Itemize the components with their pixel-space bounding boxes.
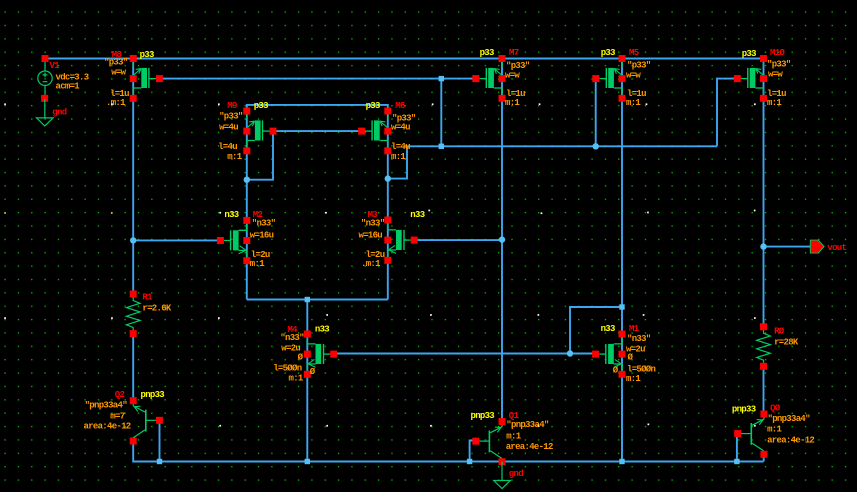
wire Q2 base drop: [159, 422, 161, 462]
svg-text:p33: p33: [480, 48, 494, 58]
transistor M8: [130, 55, 163, 102]
wire M10 gate link: [717, 79, 737, 147]
label M1: [629, 324, 640, 334]
value M5 m: [626, 98, 641, 108]
cellname M8 p33: [140, 50, 154, 60]
svg-text:"p33": "p33": [506, 61, 530, 71]
net M1 bulk 0: [628, 353, 634, 363]
junction Q1 base rail: [467, 459, 472, 464]
svg-text:M7: M7: [509, 48, 519, 58]
label R0: [774, 327, 785, 337]
svg-text:m:1: m:1: [250, 259, 265, 269]
svg-text:vout: vout: [827, 243, 846, 253]
wire M5 M1 column: [621, 59, 623, 462]
value M1 m: [626, 374, 641, 384]
wire M6 M3 column: [387, 111, 389, 300]
svg-text:w=16u: w=16u: [250, 231, 274, 241]
junction pbias corner: [439, 144, 444, 149]
transistor Q2: [130, 397, 163, 444]
value M2 l: [251, 250, 270, 260]
label M2: [253, 210, 263, 220]
svg-text:M9: M9: [227, 101, 237, 111]
transistor Q0: [734, 411, 767, 458]
node vout: [760, 243, 766, 249]
svg-text:R1: R1: [142, 293, 153, 303]
value M7 m: [505, 98, 520, 108]
cellname M1 n33: [601, 324, 615, 334]
wire R0 to Q0 emitter: [763, 367, 765, 415]
net M4 bulk 0: [298, 353, 304, 363]
svg-text:w=4u: w=4u: [219, 123, 238, 133]
svg-text:RØ: RØ: [774, 327, 785, 337]
junction M5 drain: [619, 304, 624, 309]
value M9 w: [219, 123, 238, 133]
svg-text:pnp33: pnp33: [471, 411, 495, 421]
svg-text:pnp33: pnp33: [141, 390, 165, 400]
svg-text:"n33": "n33": [252, 218, 276, 228]
svg-text:w=w: w=w: [111, 68, 126, 78]
svg-text:p33: p33: [366, 101, 380, 111]
svg-text:"n33": "n33": [361, 218, 385, 228]
value Q1 area: [506, 442, 553, 452]
value acm: [56, 82, 81, 92]
transistor M10: [734, 55, 767, 102]
value M10 m: [767, 98, 782, 108]
label M10: [770, 48, 785, 58]
svg-text:w=16u: w=16u: [359, 231, 383, 241]
value M6 w: [391, 123, 410, 133]
svg-text:m:1: m:1: [391, 152, 406, 162]
node M6 drain: [385, 175, 391, 181]
cellname Q0 pnp33: [732, 404, 756, 414]
svg-text:m:1: m:1: [767, 425, 782, 435]
junction Q0 base rail: [734, 459, 739, 464]
svg-text:m:1: m:1: [289, 374, 304, 384]
value M7 l: [506, 89, 525, 99]
model M6: [392, 113, 416, 123]
model M10: [767, 59, 791, 69]
transistor M9: [243, 108, 276, 155]
model M4: [280, 333, 304, 343]
resistor R0: [757, 323, 771, 370]
resistor R1: [126, 291, 140, 338]
model M8: [104, 58, 128, 68]
model M3: [361, 218, 385, 228]
wire M8 drain column to R1: [132, 59, 134, 295]
value Q2 area: [84, 422, 131, 432]
svg-text:p33: p33: [140, 50, 154, 60]
junction M8 M7 gates: [439, 76, 444, 81]
wire Q1 base drop: [470, 441, 476, 462]
label M4: [287, 325, 298, 335]
svg-text:"n33": "n33": [280, 333, 304, 343]
value M3 m: [361, 259, 381, 269]
wire vdd rail: [45, 58, 764, 60]
value M6 l: [391, 142, 410, 152]
svg-text:"p33": "p33": [627, 60, 651, 70]
value M6 m: [391, 152, 406, 162]
wire M5 gate drop: [595, 79, 597, 147]
cellname M9 p33: [254, 101, 268, 111]
label Q2: [115, 390, 125, 400]
svg-text:.m:1: .m:1: [361, 259, 381, 269]
svg-text:m:1: m:1: [227, 152, 242, 162]
model M5: [627, 60, 651, 70]
model M9: [219, 111, 243, 121]
svg-text:area:4e-12: area:4e-12: [84, 422, 131, 432]
value Q2 m: [110, 412, 124, 422]
node M9 drain: [244, 177, 250, 183]
value M9 m: [227, 152, 242, 162]
net M4 source 0: [310, 367, 316, 377]
svg-text:p33: p33: [601, 48, 615, 58]
svg-text:w=w: w=w: [768, 70, 783, 80]
value R0: [774, 337, 799, 347]
value M7 w: [505, 71, 520, 81]
transistor M7: [472, 55, 505, 102]
label Q1: [509, 411, 520, 421]
transistor M5: [592, 55, 625, 102]
net M1 source 0: [613, 366, 619, 376]
junction M2 M3 sources: [305, 297, 310, 302]
svg-text:"p33": "p33": [767, 59, 791, 69]
value R1: [142, 303, 172, 313]
wire M8 gate to M7 gate: [160, 78, 476, 80]
svg-text:m:1: m:1: [505, 98, 520, 108]
node marker white dots: [4, 103, 756, 426]
label M6: [395, 101, 405, 111]
svg-text:n33: n33: [224, 210, 238, 220]
wire M4 column: [306, 300, 308, 462]
svg-text:m:1: m:1: [767, 98, 782, 108]
node M8 drain M2 gate: [130, 237, 136, 243]
wire R1 to Q2 emitter: [132, 334, 134, 401]
value M3 l: [366, 250, 385, 260]
wire M9 gate loop: [247, 131, 273, 180]
cellname M5 p33: [601, 48, 615, 58]
value vdc: [56, 73, 89, 83]
wire M9 M2 column: [246, 111, 248, 300]
svg-text:"pnp33a4": "pnp33a4": [768, 414, 811, 424]
cellname M4 n33: [315, 325, 329, 335]
transistor M1: [592, 331, 625, 378]
svg-text:"n33": "n33": [627, 334, 651, 344]
value M4 m: [289, 374, 304, 384]
svg-text:n33: n33: [601, 324, 615, 334]
svg-text:area:4e-12: area:4e-12: [506, 442, 553, 452]
label gnd Q1: [509, 469, 523, 479]
label vout: [827, 243, 846, 253]
transistor M6: [358, 108, 391, 155]
value M1 l: [627, 365, 656, 375]
wire pbias horizontal: [407, 145, 717, 147]
svg-text:w=4u: w=4u: [391, 123, 410, 133]
value M8 w: [111, 68, 126, 78]
wire M2 M3 source bridge: [247, 299, 388, 301]
svg-text:M5: M5: [629, 48, 639, 58]
svg-text:n33: n33: [410, 210, 424, 220]
svg-text:"p33": "p33": [104, 58, 128, 68]
value M8 m: [106, 98, 126, 108]
svg-text:r=28K: r=28K: [774, 337, 799, 347]
transistor M2: [217, 217, 250, 264]
svg-text:V1: V1: [50, 61, 61, 71]
value M5 l: [627, 89, 646, 99]
svg-text:gnd: gnd: [509, 469, 523, 479]
svg-text:r=2.6K: r=2.6K: [142, 303, 172, 313]
node M7 drain M3 gate: [499, 236, 505, 242]
svg-text:m:1: m:1: [626, 98, 641, 108]
voltage source V1: [38, 55, 52, 102]
node M1 gate: [567, 350, 573, 356]
ground below Q1: [494, 462, 511, 489]
value M10 l: [767, 89, 786, 99]
cellname Q2 pnp33: [141, 390, 165, 400]
value M3 w: [359, 231, 383, 241]
cellname Q1 pnp33: [471, 411, 495, 421]
transistor Q1: [472, 418, 505, 465]
svg-text:pnp33: pnp33: [732, 404, 756, 414]
svg-text:M1: M1: [629, 324, 640, 334]
wire M7 drain column to Q1: [501, 59, 503, 422]
svg-text:p33: p33: [254, 101, 268, 111]
svg-text:"p33": "p33": [219, 111, 243, 121]
wire M9 M6 source bridge: [247, 105, 388, 111]
wire Q2 collector + bottom rail: [133, 441, 763, 462]
svg-text:M6: M6: [395, 101, 405, 111]
svg-text:gnd: gnd: [52, 108, 66, 118]
wire M9 gate to M6 gate: [273, 130, 362, 132]
svg-text:.m:1: .m:1: [106, 98, 126, 108]
cellname M6 p33: [366, 101, 380, 111]
value M2 m: [250, 259, 265, 269]
ground below V1: [37, 99, 54, 126]
wire M10 drain column to R0: [763, 59, 765, 327]
value M4 w: [281, 343, 300, 353]
svg-text:"pnp33a4": "pnp33a4": [506, 420, 549, 430]
label Q0: [770, 403, 781, 413]
svg-text:l=4u: l=4u: [391, 142, 410, 152]
svg-text:n33: n33: [315, 325, 329, 335]
model Q1: [506, 420, 549, 430]
svg-text:M1Ø: M1Ø: [770, 48, 785, 58]
svg-text:QØ: QØ: [770, 403, 781, 413]
label M5: [629, 48, 639, 58]
model M2: [252, 218, 276, 228]
wire vout stub: [764, 246, 811, 248]
model M7: [506, 61, 530, 71]
svg-text:w=w: w=w: [505, 71, 520, 81]
wire M2 gate to M8 drain: [133, 239, 220, 241]
cellname M3 n33: [410, 210, 424, 220]
model Q0: [768, 414, 811, 424]
svg-text:p33: p33: [742, 49, 756, 59]
wire M5 drain to M1 gate: [570, 307, 622, 354]
wire pbias to M6 drain: [388, 146, 407, 178]
svg-text:Q2: Q2: [115, 390, 125, 400]
pin vout: [810, 240, 824, 253]
svg-text:m=7: m=7: [110, 412, 124, 422]
cellname M10 p33: [742, 49, 756, 59]
model M1: [627, 334, 651, 344]
svg-text:acm=1: acm=1: [56, 82, 81, 92]
model Q2: [85, 400, 128, 410]
value Q0 area: [767, 436, 814, 446]
svg-text:w=w: w=w: [626, 71, 641, 81]
junction Q2 base rail: [157, 459, 162, 464]
svg-text:m:1: m:1: [506, 432, 521, 442]
svg-text:m:1: m:1: [626, 374, 641, 384]
cellname M2 n33: [224, 210, 238, 220]
label M3: [368, 210, 378, 220]
junction M1 source rail: [619, 459, 624, 464]
label V1: [50, 61, 61, 71]
value M2 w: [250, 231, 274, 241]
cellname M7 p33: [480, 48, 494, 58]
svg-text:l=5ØØn: l=5ØØn: [273, 364, 302, 374]
svg-text:"pnp33a4": "pnp33a4": [85, 400, 128, 410]
wire pbias vertical x441: [440, 79, 442, 147]
value Q1 m: [506, 432, 521, 442]
value M8 l: [110, 89, 129, 99]
svg-text:l=4u: l=4u: [218, 142, 237, 152]
value M1 w: [626, 344, 645, 354]
label M9: [227, 101, 237, 111]
label M7: [509, 48, 519, 58]
svg-text:area:4e-12: area:4e-12: [767, 436, 814, 446]
wire M3 gate to M7 drain: [414, 239, 502, 241]
node M5 gate: [593, 143, 599, 149]
junction M4 source rail: [305, 459, 310, 464]
value M10 w: [768, 70, 783, 80]
transistor M3: [384, 217, 417, 264]
label R1: [142, 293, 153, 303]
value M5 w: [626, 71, 641, 81]
value Q0 m: [767, 425, 782, 435]
value M4 l: [273, 364, 302, 374]
wire M4 gate to M1 gate: [334, 353, 596, 355]
label gnd V1: [52, 108, 66, 118]
wire Q0 collector drop: [763, 455, 765, 462]
transistor M4: [304, 331, 337, 378]
label M8: [112, 50, 122, 60]
wire Q0 base drop: [736, 434, 738, 462]
value M9 l: [218, 142, 237, 152]
